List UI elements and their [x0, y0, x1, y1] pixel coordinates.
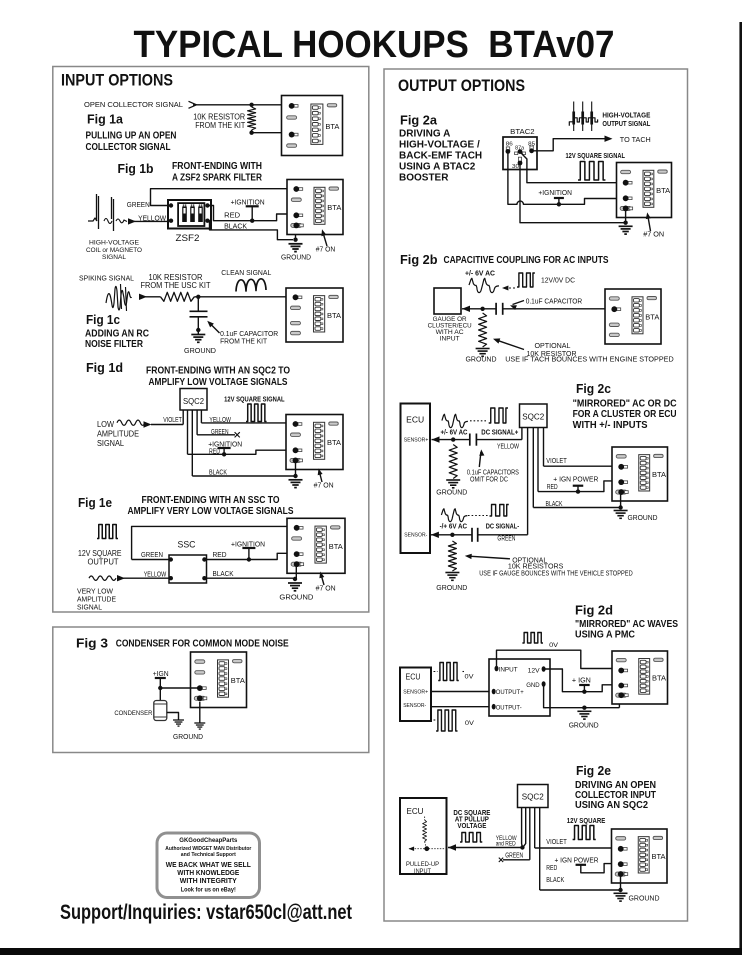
svg-text:FRONT-ENDING WITH AN SSC TO: FRONT-ENDING WITH AN SSC TO: [142, 495, 280, 506]
svg-text:#7 ON: #7 ON: [316, 583, 336, 592]
svg-text:+/- 6V AC: +/- 6V AC: [441, 429, 468, 436]
svg-text:GROUND: GROUND: [184, 346, 217, 355]
svg-text:Fig 2a: Fig 2a: [400, 113, 438, 128]
svg-text:INPUT: INPUT: [440, 335, 460, 342]
svg-text:BTA: BTA: [652, 673, 666, 682]
svg-text:BTA: BTA: [327, 311, 341, 320]
svg-text:VIOLET: VIOLET: [546, 839, 567, 846]
svg-text:ECU: ECU: [407, 807, 424, 816]
svg-text:VIOLET: VIOLET: [546, 458, 567, 465]
svg-text:RED: RED: [546, 865, 557, 872]
svg-text:BOOSTER: BOOSTER: [399, 173, 449, 184]
svg-text:GROUND: GROUND: [279, 592, 314, 601]
svg-text:SIGNAL: SIGNAL: [102, 254, 126, 261]
svg-text:HIGH-VOLTAGE /: HIGH-VOLTAGE /: [399, 140, 480, 151]
svg-text:+/- 6V AC: +/- 6V AC: [465, 269, 496, 278]
svg-text:SSC: SSC: [178, 540, 196, 551]
svg-text:DC SIGNAL+: DC SIGNAL+: [481, 429, 518, 436]
svg-text:Fig 1d: Fig 1d: [86, 360, 123, 375]
svg-text:OUTPUT SIGNAL: OUTPUT SIGNAL: [602, 121, 651, 128]
svg-text:USE IF GAUGE BOUNCES WITH THE: USE IF GAUGE BOUNCES WITH THE VEHICLE ST…: [479, 569, 633, 578]
svg-text:RED: RED: [224, 210, 241, 219]
svg-text:SQC2: SQC2: [522, 411, 544, 421]
svg-text:YELLOW: YELLOW: [209, 417, 231, 424]
svg-text:VIOLET: VIOLET: [163, 417, 182, 424]
svg-text:BTA: BTA: [651, 852, 665, 861]
svg-text:12V SQUARE SIGNAL: 12V SQUARE SIGNAL: [566, 151, 626, 160]
svg-text:SENSOR-: SENSOR-: [403, 703, 426, 709]
svg-text:Fig 1c: Fig 1c: [86, 312, 120, 327]
svg-text:GROUND: GROUND: [569, 721, 600, 730]
svg-text:ECU: ECU: [406, 673, 421, 682]
svg-text:and Technical Support: and Technical Support: [181, 852, 236, 858]
svg-text:12V SQUARE SIGNAL: 12V SQUARE SIGNAL: [224, 395, 285, 404]
svg-text:BLACK: BLACK: [213, 569, 234, 578]
svg-text:BLACK: BLACK: [209, 470, 227, 477]
svg-text:INPUT: INPUT: [414, 868, 431, 875]
svg-text:#7 ON: #7 ON: [643, 230, 664, 239]
svg-text:Fig 1e: Fig 1e: [78, 495, 112, 510]
svg-text:HIGH-VOLTAGE: HIGH-VOLTAGE: [89, 240, 140, 247]
svg-text:GND: GND: [526, 682, 540, 689]
svg-text:BTA: BTA: [327, 438, 341, 447]
svg-text:Support/Inquiries: vstar650cl@: Support/Inquiries: vstar650cl@att.net: [60, 901, 352, 924]
svg-text:SENSOR-: SENSOR-: [404, 532, 427, 538]
svg-text:AMPLITUDE: AMPLITUDE: [97, 430, 139, 439]
svg-text:BTA: BTA: [325, 122, 339, 131]
svg-text:FRONT-ENDING WITH AN SQC2 TO: FRONT-ENDING WITH AN SQC2 TO: [146, 366, 290, 377]
svg-text:SPIKING SIGNAL: SPIKING SIGNAL: [79, 274, 134, 283]
svg-text:SQC2: SQC2: [183, 396, 204, 406]
svg-text:Fig 3: Fig 3: [76, 636, 108, 651]
svg-text:SIGNAL: SIGNAL: [97, 439, 125, 448]
svg-text:Fig 2e: Fig 2e: [576, 763, 611, 778]
svg-text:Fig 2b: Fig 2b: [400, 252, 438, 267]
svg-text:GROUND: GROUND: [436, 583, 468, 592]
svg-text:OPEN COLLECTOR SIGNAL: OPEN COLLECTOR SIGNAL: [84, 100, 183, 109]
svg-text:ECU: ECU: [406, 415, 424, 425]
svg-text:GROUND: GROUND: [629, 894, 661, 903]
svg-text:HIGH-VOLTAGE: HIGH-VOLTAGE: [602, 112, 650, 119]
svg-text:PULLING UP AN OPEN: PULLING UP AN OPEN: [86, 131, 177, 142]
svg-text:YELLOW: YELLOW: [497, 443, 519, 450]
svg-text:FOR A CLUSTER OR ECU: FOR A CLUSTER OR ECU: [573, 409, 677, 420]
svg-text:INPUT OPTIONS: INPUT OPTIONS: [61, 72, 173, 90]
svg-text:FROM THE KIT: FROM THE KIT: [195, 121, 245, 130]
svg-text:SQC2: SQC2: [522, 792, 544, 802]
svg-text:Fig 2c: Fig 2c: [576, 381, 611, 396]
svg-text:RED: RED: [209, 448, 220, 455]
svg-text:GKGoodCheapParts: GKGoodCheapParts: [179, 837, 237, 844]
svg-text:GROUND: GROUND: [628, 513, 659, 522]
svg-text:VOLTAGE: VOLTAGE: [457, 821, 486, 830]
svg-text:Fig 1b: Fig 1b: [118, 161, 154, 176]
svg-text:AMPLIFY VERY LOW VOLTAGE SIGNA: AMPLIFY VERY LOW VOLTAGE SIGNALS: [128, 506, 294, 517]
svg-text:-/+ 6V AC: -/+ 6V AC: [440, 523, 468, 530]
svg-text:12V/0V DC: 12V/0V DC: [541, 276, 576, 285]
svg-text:SENSOR+: SENSOR+: [404, 437, 429, 443]
svg-text:0V: 0V: [549, 642, 559, 649]
svg-text:WITH +/- INPUTS: WITH +/- INPUTS: [573, 420, 648, 431]
svg-text:#7 ON: #7 ON: [314, 481, 334, 490]
svg-text:USE IF TACH BOUNCES WITH ENGIN: USE IF TACH BOUNCES WITH ENGINE STOPPED: [505, 355, 674, 364]
svg-text:30: 30: [512, 164, 519, 170]
svg-text:BLACK: BLACK: [224, 221, 247, 230]
svg-text:and RED: and RED: [496, 840, 516, 847]
svg-text:Fig 1a: Fig 1a: [87, 112, 124, 127]
svg-text:COIL or MAGNETO: COIL or MAGNETO: [86, 247, 142, 254]
svg-text:Fig 2d: Fig 2d: [575, 603, 613, 618]
svg-text:AMPLIFY LOW VOLTAGE SIGNALS: AMPLIFY LOW VOLTAGE SIGNALS: [149, 377, 288, 388]
svg-text:OUTPUT-: OUTPUT-: [496, 704, 522, 711]
svg-text:BLACK: BLACK: [546, 501, 563, 508]
svg-text:BTA: BTA: [327, 203, 341, 212]
svg-text:GROUND: GROUND: [173, 734, 203, 741]
svg-text:0V: 0V: [465, 673, 475, 680]
svg-text:"MIRRORED" AC WAVES: "MIRRORED" AC WAVES: [575, 619, 678, 630]
svg-text:GREEN: GREEN: [505, 852, 523, 859]
svg-text:USING A BTAC2: USING A BTAC2: [399, 162, 476, 173]
svg-text:RED: RED: [213, 550, 228, 559]
svg-text:OMIT FOR DC: OMIT FOR DC: [470, 476, 508, 483]
svg-text:A ZSF2 SPARK FILTER: A ZSF2 SPARK FILTER: [172, 173, 263, 184]
svg-text:BTA: BTA: [231, 676, 245, 685]
svg-text:+ IGN POWER: + IGN POWER: [555, 856, 600, 865]
svg-text:GREEN: GREEN: [127, 200, 150, 209]
svg-text:BTA: BTA: [656, 186, 670, 195]
svg-text:BACK-EMF TACH: BACK-EMF TACH: [399, 151, 482, 162]
svg-text:SIGNAL: SIGNAL: [77, 603, 102, 612]
svg-text:GREEN: GREEN: [211, 429, 229, 436]
svg-text:YELLOW: YELLOW: [138, 213, 167, 222]
svg-text:LOW: LOW: [97, 420, 114, 429]
svg-text:YELLOW: YELLOW: [144, 569, 167, 578]
svg-text:GROUND: GROUND: [466, 355, 498, 364]
svg-text:BTAC2: BTAC2: [510, 127, 535, 136]
svg-text:OUTPUT: OUTPUT: [88, 557, 119, 566]
svg-text:USING AN SQC2: USING AN SQC2: [575, 800, 648, 811]
svg-text:NOISE FILTER: NOISE FILTER: [85, 339, 144, 350]
svg-text:"MIRRORED" AC OR DC: "MIRRORED" AC OR DC: [573, 399, 677, 410]
svg-text:GREEN: GREEN: [141, 550, 163, 559]
svg-text:#7 ON: #7 ON: [316, 245, 336, 254]
svg-text:OUTPUT+: OUTPUT+: [496, 689, 524, 696]
svg-text:GROUND: GROUND: [436, 488, 468, 497]
svg-text:CAPACITIVE COUPLING FOR AC INP: CAPACITIVE COUPLING FOR AC INPUTS: [444, 255, 609, 266]
svg-text:FRONT-ENDING WITH: FRONT-ENDING WITH: [172, 161, 262, 172]
svg-text:TYPICAL HOOKUPS BTAv07: TYPICAL HOOKUPS BTAv07: [134, 24, 615, 66]
svg-text:0.1uF CAPACITOR: 0.1uF CAPACITOR: [526, 297, 583, 306]
svg-text:BLACK: BLACK: [546, 877, 564, 884]
svg-text:BTA: BTA: [645, 313, 659, 322]
svg-text:+IGNITION: +IGNITION: [231, 197, 265, 206]
svg-text:CONDENSER FOR COMMON MODE NOIS: CONDENSER FOR COMMON MODE NOISE: [116, 638, 289, 649]
svg-text:+ IGN: + IGN: [572, 675, 591, 684]
svg-text:CONDENSER: CONDENSER: [114, 710, 152, 717]
svg-text:GROUND: GROUND: [281, 253, 312, 262]
svg-text:+IGN: +IGN: [153, 671, 169, 678]
svg-text:+IGNITION: +IGNITION: [538, 188, 572, 197]
svg-text:BTA: BTA: [329, 542, 343, 551]
svg-text:FROM THE KIT: FROM THE KIT: [220, 336, 267, 345]
svg-text:12V SQUARE: 12V SQUARE: [567, 816, 606, 825]
svg-text:+ IGN POWER: + IGN POWER: [553, 475, 599, 484]
svg-text:0V: 0V: [465, 720, 475, 727]
svg-text:FROM THE USC KIT: FROM THE USC KIT: [141, 281, 211, 290]
svg-text:TO TACH: TO TACH: [620, 135, 651, 144]
svg-text:ZSF2: ZSF2: [176, 233, 200, 244]
svg-text:CLEAN SIGNAL: CLEAN SIGNAL: [221, 268, 271, 277]
svg-text:ADDING AN RC: ADDING AN RC: [85, 329, 149, 340]
svg-text:DC SIGNAL-: DC SIGNAL-: [486, 523, 520, 530]
svg-text:Look for us on eBay!: Look for us on eBay!: [181, 887, 236, 894]
svg-text:SENSOR+: SENSOR+: [403, 690, 429, 696]
svg-text:WITH INTEGRITY: WITH INTEGRITY: [180, 876, 237, 885]
svg-text:BTA: BTA: [652, 470, 666, 479]
svg-text:GREEN: GREEN: [497, 535, 515, 542]
svg-text:INPUT: INPUT: [499, 667, 518, 674]
svg-text:OUTPUT OPTIONS: OUTPUT OPTIONS: [398, 77, 525, 95]
svg-text:12V: 12V: [528, 667, 541, 674]
svg-text:COLLECTOR SIGNAL: COLLECTOR SIGNAL: [86, 142, 171, 153]
svg-text:RED: RED: [547, 484, 558, 491]
svg-text:DRIVING A: DRIVING A: [399, 129, 450, 140]
svg-text:USING A PMC: USING A PMC: [575, 630, 635, 641]
